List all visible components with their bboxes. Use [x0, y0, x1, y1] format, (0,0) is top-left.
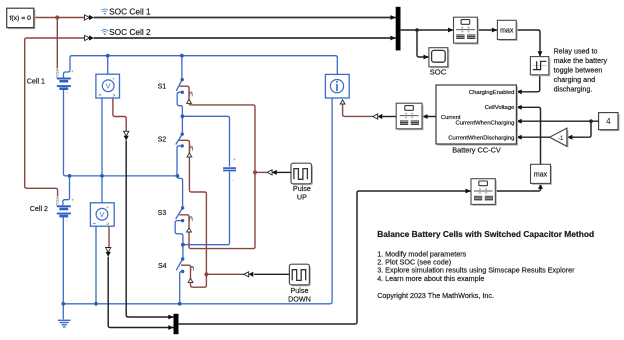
- svg-text:C: C: [56, 202, 59, 207]
- record U4: [471, 179, 497, 206]
- svg-text:+: +: [106, 205, 109, 210]
- wire record U4 to max2: [495, 184, 540, 191]
- node junction rail2 V sensors: [100, 174, 104, 178]
- wire Pulse DOWN block lead: [254, 273, 289, 275]
- arrowhead into record U4: [466, 189, 471, 194]
- battery Cell 1 plates: [57, 79, 71, 89]
- svg-text:discharging.: discharging.: [554, 84, 593, 93]
- wire battery Cell 2 SOC to SOC Cell 2 converter: [25, 38, 85, 197]
- switch S2 lever: [176, 134, 182, 144]
- wire constant 4 to CurrentWhenCharging: [516, 120, 598, 122]
- arrowhead into mux1 input 2: [390, 36, 396, 41]
- arrowhead into SOC scope: [424, 55, 429, 60]
- subsystem Battery CC-CV: [436, 85, 518, 146]
- converter Pulse DOWN: open and filled left arrows: [244, 272, 253, 277]
- solver block f(x)=0: [7, 8, 36, 29]
- wire ground lead: [62, 304, 64, 320]
- svg-text:f(x) = 0: f(x) = 0: [10, 15, 32, 22]
- wire max1 to relay: [516, 30, 540, 56]
- wire battery Cell 2 top lead: [63, 176, 70, 206]
- wire Pulse DOWN net: junction to switch S4 control: [181, 265, 206, 287]
- svg-text:S3: S3: [158, 210, 167, 217]
- wire node A to S2 top: [181, 116, 183, 134]
- arrowhead into CellVoltage: [516, 105, 521, 110]
- wifi badge SOC Cell 1: [101, 9, 108, 15]
- svg-text:-1: -1: [558, 135, 564, 142]
- wire record U3 left lead: [382, 116, 396, 118]
- node A junction S1/S2/capacitor: [181, 114, 185, 118]
- wire relay to ChargingEnabled: [516, 75, 539, 92]
- svg-text:S4: S4: [158, 263, 167, 270]
- wire battery Cell 2 bottom to ground rail: [62, 217, 64, 304]
- svg-text:CellVoltage: CellVoltage: [485, 105, 516, 111]
- wire Pulse UP net: junction to switch S3 control: [179, 172, 255, 248]
- wire V2 sensor PS output to converter: [108, 226, 110, 247]
- switch S2 threshold glyph: [190, 146, 193, 150]
- svg-text:UP: UP: [297, 193, 307, 202]
- wire V1 measurement to mux2: [126, 141, 173, 318]
- wire S3 top lead: [177, 176, 182, 208]
- max1 block: [497, 20, 517, 41]
- wire V2 bottom lead: [95, 226, 97, 304]
- switch S1 lever: [176, 80, 182, 91]
- svg-text:+: +: [71, 198, 74, 203]
- arrowhead into max2: [538, 184, 543, 189]
- switch S3 lever: [176, 208, 183, 219]
- arrowhead into ChargingEnabled: [516, 89, 521, 94]
- wire branch to gain -1: [567, 121, 591, 137]
- converter Pulse UP: open and filled left arrows: [267, 170, 276, 175]
- voltage sensor V1: [96, 74, 120, 99]
- svg-text:SOC Cell 1: SOC Cell 1: [109, 6, 151, 16]
- wifi badge SOC Cell 2: [101, 29, 108, 35]
- battery Cell 1 SOC port label: [56, 67, 59, 78]
- wire top electrical rail: battery Cell 1 plus to current sensor top: [64, 56, 338, 78]
- port arrow switch S2 control: [187, 153, 192, 157]
- svg-text:DOWN: DOWN: [288, 295, 311, 304]
- svg-text:+: +: [71, 69, 74, 74]
- svg-text:Battery CC-CV: Battery CC-CV: [452, 146, 501, 155]
- wire Battery CC-CV Current output to record U3: [422, 116, 436, 118]
- svg-text:max: max: [500, 28, 514, 35]
- svg-text:-: -: [66, 218, 68, 223]
- svg-text:+: +: [112, 76, 115, 81]
- node junction rail1 V1: [106, 54, 110, 58]
- wire Pulse UP net: junction to converter: [255, 171, 267, 173]
- svg-text:+: +: [233, 157, 236, 162]
- node junction Pulse UP: [253, 170, 257, 174]
- wire max2 to CellVoltage: [516, 107, 540, 164]
- port arrow switch S1 control: [187, 99, 192, 103]
- arrowhead into record U3: [422, 114, 427, 119]
- record U3: [396, 103, 423, 130]
- converter SOC Cell 2: open and filled arrows: [85, 35, 94, 40]
- wire signal SOC Cell 1: [94, 17, 396, 19]
- wire mux2 output to record U4: [179, 191, 471, 324]
- node B junction S3/S4/capacitor: [181, 243, 185, 247]
- max2 block: [531, 164, 553, 185]
- wire node B to S4 top: [182, 245, 184, 259]
- svg-text:-: -: [66, 90, 68, 95]
- svg-text:Cell 1: Cell 1: [27, 77, 45, 85]
- svg-text:Balance Battery Cells with Swi: Balance Battery Cells with Switched Capa…: [377, 229, 594, 239]
- arrowhead into mux2 input 2: [168, 325, 173, 330]
- current sensor I1: [325, 74, 349, 98]
- svg-text:CurrentWhenDischarging: CurrentWhenDischarging: [448, 135, 514, 141]
- svg-text:>: >: [113, 93, 116, 99]
- node junction rail3 V2: [94, 302, 98, 306]
- switch S1 threshold glyph: [190, 92, 193, 96]
- wire Pulse DOWN net: junction to converter: [206, 273, 244, 275]
- converter V1: open and filled down arrows: [124, 131, 129, 140]
- mux1: [396, 7, 401, 51]
- arrowhead into record U1: [448, 28, 453, 33]
- relay block: [530, 57, 550, 77]
- svg-text:Cell 2: Cell 2: [30, 205, 48, 213]
- svg-text:charging and: charging and: [554, 75, 596, 84]
- switch S1 bottom hook: [177, 92, 182, 116]
- svg-text:4: 4: [606, 117, 611, 126]
- wire battery Cell 1 SOC riser: [56, 18, 58, 69]
- svg-text:SOC: SOC: [430, 68, 447, 77]
- converter V2: open and filled down arrows: [106, 248, 111, 257]
- arrowhead into CurrentWhenDischarging: [516, 135, 521, 140]
- svg-text:V: V: [100, 210, 105, 219]
- wire Pulse UP net: switch S1 control to junction: [180, 86, 255, 172]
- svg-text:C: C: [56, 74, 59, 79]
- switch S1 contact dots: [181, 78, 184, 81]
- wire capacitor bottom to node B: [183, 172, 230, 245]
- switch S4 lever: [176, 259, 183, 270]
- wire middle electrical rail: battery Cell 1 minus to S2/S3 node: [64, 89, 178, 176]
- port arrow current sensor PS: [340, 100, 345, 104]
- wire V1 bottom to V2 top: [101, 98, 103, 203]
- switch S3 threshold glyph: [190, 217, 193, 221]
- switch S2 contact dots: [181, 132, 184, 135]
- wire bottom electrical rail: ground to current sensor bottom: [63, 98, 332, 304]
- arrowhead into mux1 input 1: [390, 15, 396, 20]
- svg-text:4. Learn more about this examp: 4. Learn more about this example: [377, 274, 484, 283]
- capacitor C1 plates: [223, 168, 236, 170]
- mux2: [174, 314, 179, 334]
- switch S3 contact dots: [181, 206, 184, 209]
- switch S4 threshold glyph: [191, 266, 194, 270]
- svg-text:Relay used to: Relay used to: [554, 46, 598, 55]
- switch S4 bottom hook: [180, 272, 183, 304]
- gain -1: [550, 128, 569, 148]
- scope SOC: [429, 48, 449, 69]
- wire f(x)=0 output to SOC Cell 1 converter: [34, 17, 85, 19]
- arrowhead into relay: [538, 51, 543, 56]
- wire V1 sensor PS output to converter: [113, 98, 126, 131]
- wire S1 top lead: [181, 56, 183, 80]
- svg-text:CurrentWhenCharging: CurrentWhenCharging: [455, 121, 514, 127]
- source block Pulse DOWN: [289, 264, 311, 286]
- wire gain -1 to CurrentWhenDischarging: [516, 136, 549, 138]
- wire current sensor PS to record converter: [343, 104, 373, 116]
- svg-text:S2: S2: [158, 137, 167, 144]
- battery Cell 2 SOC port label: [56, 195, 59, 206]
- node junction rail2 battery Cell 2: [68, 174, 72, 178]
- svg-text:make the battery: make the battery: [554, 56, 608, 65]
- node junction rail3 ground: [61, 302, 65, 306]
- node junction constant 4: [589, 119, 593, 123]
- wire branch to SOC scope: [417, 30, 429, 57]
- svg-text:toggle between: toggle between: [554, 65, 603, 74]
- node junction rail2 S2/S3: [176, 174, 180, 178]
- svg-text:SOC Cell 2: SOC Cell 2: [109, 27, 151, 37]
- voltage sensor V2: [90, 203, 114, 228]
- svg-text:S1: S1: [158, 83, 167, 90]
- svg-text:max: max: [534, 172, 548, 179]
- switch S2 bottom hook: [177, 146, 182, 176]
- arrowhead into max1: [492, 28, 497, 33]
- wire V1 top lead: [107, 56, 109, 74]
- arrowhead into CurrentWhenCharging: [516, 119, 521, 124]
- port arrow switch S4 control: [188, 278, 193, 282]
- source block Pulse UP: [291, 163, 313, 185]
- wire Pulse DOWN net: switch S2 control to junction: [179, 140, 206, 274]
- arrowhead into mux2 input 1: [168, 315, 173, 320]
- node junction rail1 S1: [180, 54, 184, 58]
- switch S4 contact dots: [181, 257, 184, 260]
- wire record U1 to max1: [477, 29, 497, 31]
- wire Pulse UP block lead: [277, 171, 292, 173]
- node junction Pulse DOWN: [204, 272, 208, 276]
- svg-text:Current: Current: [441, 115, 461, 121]
- arrowhead into gain -1: [567, 135, 572, 140]
- node junction rail3 S4: [178, 302, 182, 306]
- svg-text:-: -: [232, 177, 234, 182]
- wire node A to capacitor top: [182, 116, 229, 166]
- switch S3 bottom hook: [175, 221, 183, 245]
- svg-text:>: >: [106, 222, 109, 228]
- converter record U3: open and filled left arrows: [373, 114, 382, 119]
- wire signal SOC Cell 2: [94, 37, 396, 39]
- record U1: [454, 17, 479, 44]
- port arrow switch S3 control: [187, 228, 192, 232]
- svg-text:Copyright 2023 The MathWorks,: Copyright 2023 The MathWorks, Inc.: [377, 291, 494, 300]
- constant 4: [599, 113, 620, 132]
- wire V2 measurement to mux2: [108, 257, 173, 328]
- node junction mux1 output: [415, 28, 419, 32]
- ground: [58, 320, 71, 327]
- node junction f(x) line: [55, 15, 59, 19]
- battery Cell 2 plates: [57, 206, 71, 216]
- converter SOC Cell 1: open and filled arrows: [85, 15, 94, 20]
- svg-text:V: V: [106, 82, 111, 91]
- svg-text:ChargingEnabled: ChargingEnabled: [469, 90, 515, 96]
- wire mux1 output to record U1: [401, 29, 453, 31]
